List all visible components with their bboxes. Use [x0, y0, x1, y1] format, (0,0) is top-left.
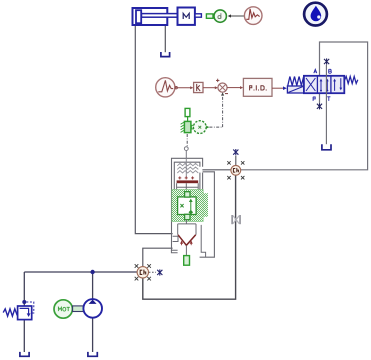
proportional 4/3 directional valve — [287, 69, 357, 101]
piston seal band — [177, 180, 199, 183]
hydraulic cylinder — [133, 8, 178, 25]
wire: pump to tank — [92, 318, 94, 352]
tank under valve port T — [322, 144, 331, 150]
feedback signal wire: sensor x to summer minus input — [209, 92, 224, 127]
piston walls — [176, 183, 178, 189]
bottom green port — [184, 256, 190, 266]
scope — [244, 7, 262, 25]
signal wire: source to gain k — [175, 86, 193, 89]
wire: valve port A up, across top, down right edge to Ch node A — [241, 42, 368, 170]
wire: cylinder rod-side port to tank — [164, 26, 166, 53]
wire: relief valve to tank — [23, 320, 25, 352]
compound pressure-compensator valve — [171, 147, 214, 266]
port labels — [314, 69, 317, 73]
mass block M — [178, 8, 202, 25]
signal wire: sensor d to scope — [228, 14, 245, 17]
terminator star right of Ch node B — [157, 269, 162, 275]
body — [304, 76, 344, 93]
PID controller block — [243, 78, 272, 96]
solenoid left — [287, 86, 303, 93]
pilot link circle — [184, 147, 188, 151]
spring left — [288, 77, 304, 86]
pump — [83, 299, 102, 318]
wire: relief valve drop from rail — [23, 272, 25, 306]
signal wire: summer to PID — [227, 86, 243, 89]
position sensor d — [206, 10, 226, 22]
signal wire: PID to valve solenoid — [272, 86, 287, 90]
orifice on return line — [231, 215, 241, 224]
terminator star above valve port B — [324, 58, 329, 64]
pressure relief valve — [3, 300, 34, 320]
gain block k — [194, 82, 203, 92]
Ch node B (lower chamber node) — [135, 264, 156, 280]
hydraulic fluid block — [304, 3, 327, 26]
terminator star above Ch node A — [233, 149, 238, 155]
wire: Ch node B top port up and right to compound valve lower port — [143, 248, 173, 266]
feedback motion line (sensor to compound valve pilot) — [186, 134, 188, 147]
green porting block with hatch — [172, 190, 203, 222]
Ch node A (upper chamber node) — [227, 156, 244, 180]
left cell crossed paths — [306, 78, 315, 91]
summing junction — [216, 79, 228, 94]
wire: cylinder cap port down and right to compound valve upper port — [135, 25, 172, 234]
tank under cylinder rod side — [161, 52, 170, 57]
wire: supply rail from relief valve to Ch node B — [24, 271, 137, 273]
outer frame — [172, 158, 215, 257]
inner valve icon — [180, 201, 190, 211]
frame steps near ports — [171, 225, 205, 257]
plus marks on piston — [178, 176, 194, 179]
spool position sensor — [181, 108, 210, 133]
funnel seat — [178, 224, 196, 235]
wire: pump to rail — [92, 272, 94, 299]
junction: pump-rail node — [90, 270, 94, 274]
right cell parallel paths — [334, 80, 336, 91]
wire: U link Ch node B bottom to Ch node A bottom — [143, 175, 236, 299]
spring right — [344, 77, 357, 84]
wire: compound valve right port to Ch node A — [202, 169, 231, 171]
tank under pump — [88, 352, 97, 356]
spring — [177, 163, 198, 173]
stem: valve port B down through valve to tank line — [325, 65, 327, 144]
tank under relief valve — [20, 352, 29, 356]
middle cell blocked — [320, 80, 322, 91]
poppet flow arrows — [181, 241, 192, 245]
signal wire: gain k to summer — [203, 86, 218, 89]
terminator star below valve port P — [317, 103, 322, 109]
electric motor MOT — [54, 300, 85, 318]
signal source (reference waveform) — [156, 78, 175, 97]
